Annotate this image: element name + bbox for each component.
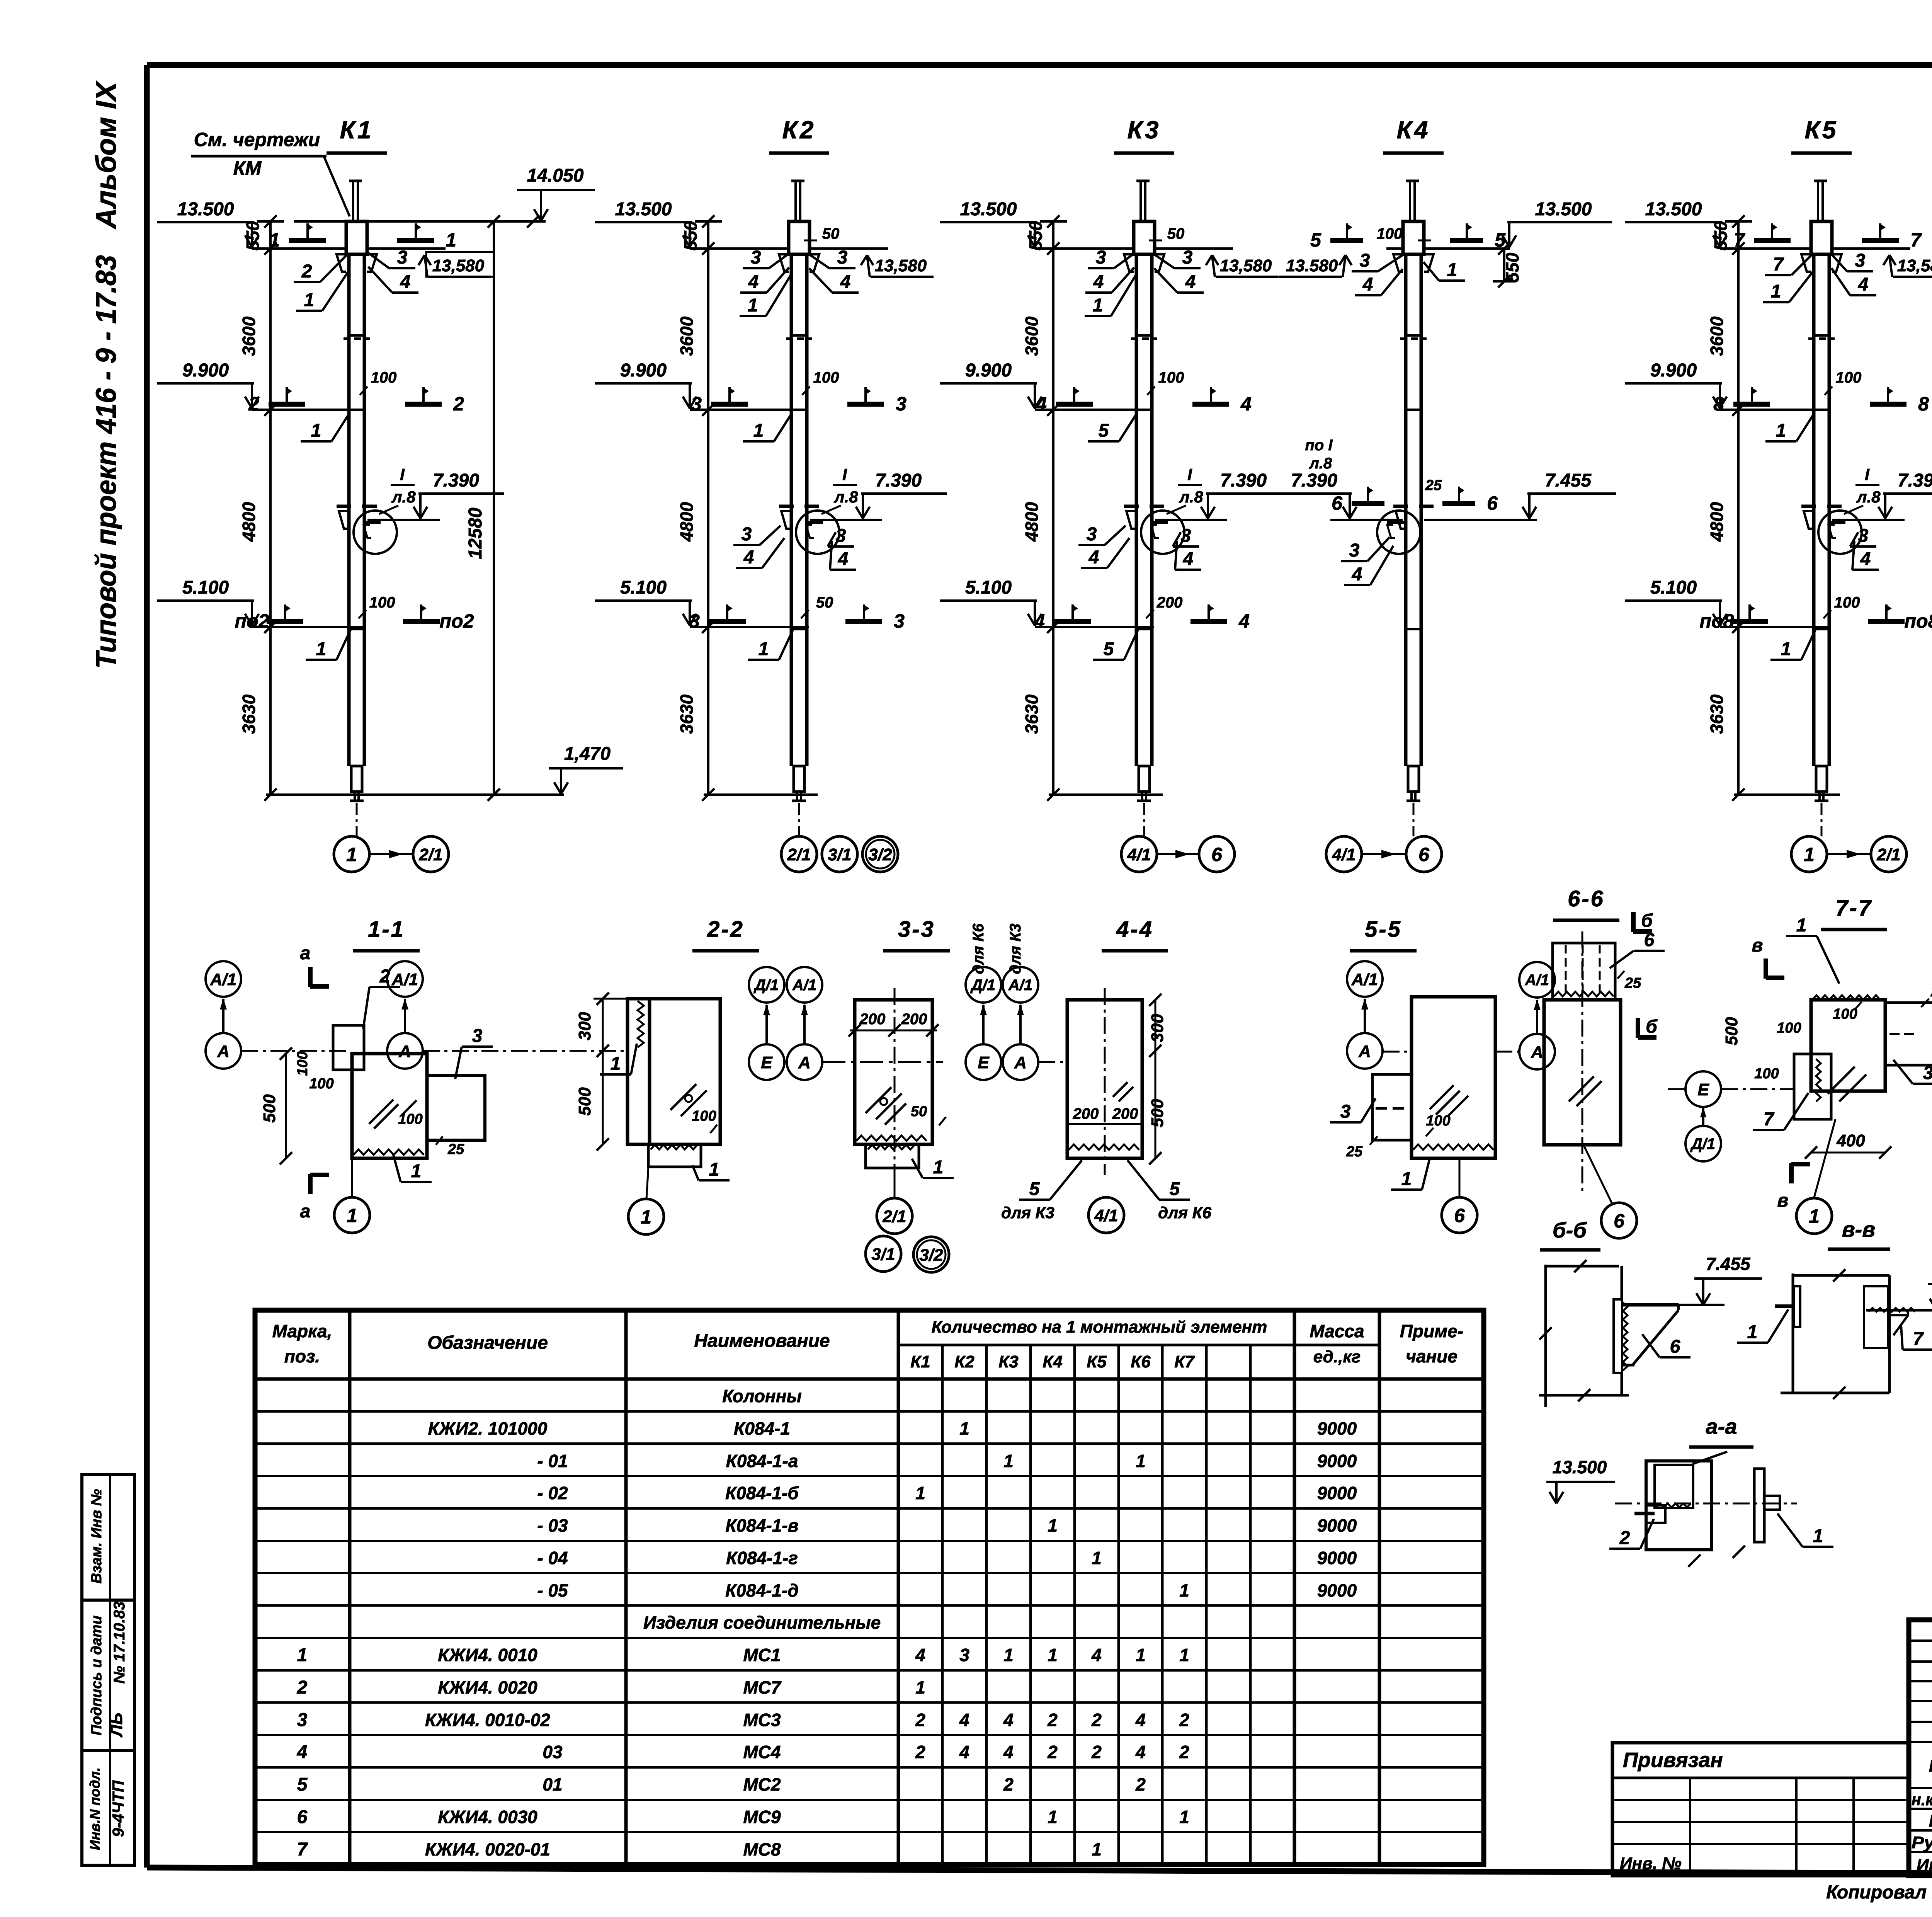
svg-text:К1: К1 xyxy=(910,1352,930,1371)
svg-text:7: 7 xyxy=(1913,1329,1924,1349)
svg-text:- 05: - 05 xyxy=(537,1580,568,1600)
svg-text:б-б: б-б xyxy=(1553,1218,1587,1242)
svg-text:К084-1: К084-1 xyxy=(734,1418,790,1439)
svg-text:2: 2 xyxy=(248,393,259,415)
svg-text:7.390: 7.390 xyxy=(1898,470,1932,491)
svg-text:3: 3 xyxy=(837,247,848,268)
left stamp box Vzam Inv xyxy=(82,1474,134,1600)
svg-text:Количество на 1 монтажный эл: Количество на 1 монтажный элемент xyxy=(932,1318,1267,1336)
svg-text:3/1: 3/1 xyxy=(828,845,851,864)
svg-text:6: 6 xyxy=(1454,1205,1465,1226)
svg-text:1: 1 xyxy=(1813,1526,1823,1546)
svg-text:I: I xyxy=(842,465,847,484)
column К1 7.390/7.455 flag xyxy=(367,519,440,521)
svg-text:300: 300 xyxy=(575,1012,594,1040)
svg-text:3: 3 xyxy=(1349,540,1360,561)
svg-text:а: а xyxy=(300,943,311,964)
svg-text:1: 1 xyxy=(1747,1322,1758,1342)
svg-text:МС1: МС1 xyxy=(743,1645,781,1665)
svg-text:13,580: 13,580 xyxy=(875,256,927,275)
svg-text:1: 1 xyxy=(297,1645,308,1665)
svg-text:1: 1 xyxy=(1136,1451,1146,1471)
svg-text:4: 4 xyxy=(400,272,411,292)
svg-text:500: 500 xyxy=(260,1094,279,1123)
svg-text:1: 1 xyxy=(316,639,327,659)
svg-text:500: 500 xyxy=(1722,1017,1741,1045)
axis circles right of 5-5 xyxy=(1519,962,1555,998)
svg-text:1: 1 xyxy=(1093,295,1103,316)
svg-text:5.100: 5.100 xyxy=(620,577,667,598)
svg-text:а: а xyxy=(300,1201,311,1222)
svg-text:А: А xyxy=(217,1042,230,1061)
svg-text:100: 100 xyxy=(1377,225,1403,242)
svg-text:1: 1 xyxy=(1048,1645,1058,1665)
svg-text:13,580: 13,580 xyxy=(1220,256,1272,275)
svg-text:1: 1 xyxy=(709,1159,719,1180)
svg-text:по2: по2 xyxy=(235,610,269,632)
svg-text:К5: К5 xyxy=(1805,116,1838,144)
column К1 low weld marks 5.100 xyxy=(267,619,303,624)
column К5 detail circle xyxy=(1818,511,1862,554)
svg-text:2: 2 xyxy=(1179,1742,1189,1762)
svg-text:4/1: 4/1 xyxy=(1332,845,1355,864)
svg-text:7: 7 xyxy=(1764,1109,1775,1130)
svg-text:2: 2 xyxy=(1091,1742,1102,1762)
svg-text:4/1: 4/1 xyxy=(1094,1206,1118,1225)
svg-text:03: 03 xyxy=(543,1742,563,1762)
svg-text:100: 100 xyxy=(1833,1006,1857,1022)
svg-text:1: 1 xyxy=(1179,1645,1189,1665)
svg-text:100: 100 xyxy=(692,1108,716,1124)
svg-text:3600: 3600 xyxy=(239,316,259,356)
svg-text:л.8: л.8 xyxy=(391,488,416,506)
svg-text:1: 1 xyxy=(346,844,357,865)
svg-text:1: 1 xyxy=(1401,1169,1412,1189)
svg-text:100: 100 xyxy=(1754,1066,1779,1082)
svg-text:3600: 3600 xyxy=(677,316,697,356)
svg-text:в: в xyxy=(1752,935,1763,956)
svg-text:4800: 4800 xyxy=(1707,502,1727,542)
svg-text:4: 4 xyxy=(1003,1710,1014,1730)
svg-text:13.500: 13.500 xyxy=(1645,199,1702,220)
svg-text:1: 1 xyxy=(915,1483,925,1503)
svg-text:5.100: 5.100 xyxy=(1650,577,1697,598)
svg-text:л.8: л.8 xyxy=(1856,488,1881,506)
svg-text:50: 50 xyxy=(816,594,833,611)
svg-text:для К3: для К3 xyxy=(1001,1204,1054,1222)
svg-text:1: 1 xyxy=(1776,421,1786,441)
svg-text:25: 25 xyxy=(1930,984,1932,1000)
svg-text:1: 1 xyxy=(269,229,280,251)
svg-text:3/1: 3/1 xyxy=(871,1245,895,1264)
svg-text:л.8: л.8 xyxy=(833,488,858,506)
svg-text:550: 550 xyxy=(1502,252,1522,282)
svg-text:Д/1: Д/1 xyxy=(753,977,779,994)
svg-text:КЖИ4. 0030: КЖИ4. 0030 xyxy=(438,1807,537,1827)
column К1 detail circle xyxy=(354,511,397,554)
svg-text:100: 100 xyxy=(1158,369,1184,386)
svg-text:1: 1 xyxy=(1447,260,1458,280)
svg-text:Рук. гр.: Рук. гр. xyxy=(1912,1833,1932,1852)
svg-text:6: 6 xyxy=(1332,492,1343,514)
svg-text:1: 1 xyxy=(304,290,315,310)
svg-text:КМ: КМ xyxy=(233,157,262,179)
svg-text:А/1: А/1 xyxy=(792,977,816,994)
column К5 levels and dimension chain xyxy=(1737,221,1740,795)
svg-text:1: 1 xyxy=(1179,1580,1189,1600)
svg-text:А: А xyxy=(1014,1053,1027,1072)
svg-text:12580: 12580 xyxy=(465,507,486,559)
svg-text:4: 4 xyxy=(748,272,759,292)
svg-text:б: б xyxy=(1641,911,1653,931)
svg-text:9.900: 9.900 xyxy=(1650,360,1697,381)
svg-text:500: 500 xyxy=(1148,1099,1167,1127)
svg-text:13.580: 13.580 xyxy=(1286,256,1338,275)
svg-text:Копировал Качалина: Копировал Качалина xyxy=(1826,1882,1932,1903)
svg-text:8: 8 xyxy=(1918,393,1929,415)
svg-text:А: А xyxy=(1358,1042,1371,1061)
svg-text:9.900: 9.900 xyxy=(620,360,667,381)
svg-text:2: 2 xyxy=(1619,1528,1630,1548)
svg-text:1: 1 xyxy=(611,1054,621,1074)
svg-text:по8: по8 xyxy=(1700,610,1734,632)
column К3 axis circles xyxy=(1121,836,1157,872)
svg-text:А/1: А/1 xyxy=(1351,970,1378,989)
svg-text:1: 1 xyxy=(641,1206,651,1228)
svg-text:100: 100 xyxy=(1777,1020,1801,1036)
svg-text:К5: К5 xyxy=(1087,1352,1107,1371)
svg-text:Масса: Масса xyxy=(1310,1321,1364,1341)
svg-text:50: 50 xyxy=(911,1103,927,1120)
svg-text:9000: 9000 xyxy=(1317,1515,1357,1536)
svg-text:6-6: 6-6 xyxy=(1568,886,1605,911)
svg-text:л.8: л.8 xyxy=(1179,488,1203,506)
svg-text:3630: 3630 xyxy=(677,694,697,734)
svg-text:- 04: - 04 xyxy=(537,1548,568,1568)
svg-text:13.500: 13.500 xyxy=(960,199,1017,220)
svg-text:3: 3 xyxy=(1181,526,1191,546)
column К3 levels and dimension chain xyxy=(1052,221,1054,795)
svg-text:8: 8 xyxy=(1713,393,1724,415)
svg-text:по2: по2 xyxy=(440,610,474,632)
svg-text:Колонны: Колонны xyxy=(722,1386,802,1406)
svg-text:6: 6 xyxy=(1614,1210,1625,1232)
svg-text:4: 4 xyxy=(743,547,754,568)
svg-text:9000: 9000 xyxy=(1317,1580,1357,1600)
svg-text:1: 1 xyxy=(1781,639,1791,659)
svg-text:5: 5 xyxy=(1170,1179,1180,1199)
svg-text:3: 3 xyxy=(959,1645,969,1665)
column К4 shaft xyxy=(1409,181,1411,221)
svg-text:А: А xyxy=(398,1042,411,1061)
title block signature rows xyxy=(1909,1787,1932,1789)
svg-text:А/1: А/1 xyxy=(391,970,418,989)
svg-text:13.500: 13.500 xyxy=(1553,1457,1607,1477)
svg-text:13.500: 13.500 xyxy=(1535,199,1592,220)
svg-text:- 02: - 02 xyxy=(537,1483,568,1503)
svg-text:4: 4 xyxy=(1240,393,1252,415)
svg-text:К6: К6 xyxy=(1131,1352,1151,1371)
svg-text:ГИП: ГИП xyxy=(1929,1757,1932,1776)
svg-text:в: в xyxy=(1777,1190,1789,1211)
column К5 axis circles xyxy=(1791,836,1827,872)
svg-text:400: 400 xyxy=(1836,1131,1865,1150)
svg-text:9.900: 9.900 xyxy=(965,360,1012,381)
svg-text:4: 4 xyxy=(1362,274,1373,295)
column К2 detail circle xyxy=(796,511,839,554)
column К2 axis circles xyxy=(781,836,817,872)
svg-text:Д/1: Д/1 xyxy=(1690,1136,1715,1153)
svg-text:К084-1-а: К084-1-а xyxy=(726,1451,798,1471)
svg-text:5: 5 xyxy=(1099,421,1109,441)
svg-text:7.390: 7.390 xyxy=(1220,470,1267,491)
svg-text:7: 7 xyxy=(297,1839,308,1860)
svg-text:5: 5 xyxy=(297,1774,308,1795)
svg-text:3/2: 3/2 xyxy=(868,845,892,864)
svg-text:100: 100 xyxy=(398,1111,422,1127)
svg-text:01: 01 xyxy=(543,1774,562,1794)
svg-text:3: 3 xyxy=(297,1710,308,1730)
svg-text:4: 4 xyxy=(1135,1742,1146,1762)
svg-text:25: 25 xyxy=(1624,975,1641,991)
svg-text:Альбом IX: Альбом IX xyxy=(90,80,122,230)
svg-text:5: 5 xyxy=(1104,639,1114,659)
svg-text:4/1: 4/1 xyxy=(1127,845,1151,864)
svg-text:Привязан: Привязан xyxy=(1623,1748,1723,1772)
svg-text:25: 25 xyxy=(1425,477,1442,494)
svg-text:13,580: 13,580 xyxy=(1897,256,1932,275)
svg-text:4: 4 xyxy=(1093,272,1104,292)
svg-text:К7: К7 xyxy=(1174,1352,1195,1371)
svg-text:Приме-: Приме- xyxy=(1400,1321,1463,1341)
column К5 low weld marks 5.100 xyxy=(1731,619,1768,624)
svg-text:3: 3 xyxy=(1087,524,1097,545)
svg-text:- 01: - 01 xyxy=(537,1451,568,1471)
svg-text:1: 1 xyxy=(347,1205,357,1226)
svg-text:МС2: МС2 xyxy=(743,1774,781,1794)
svg-text:3630: 3630 xyxy=(1707,694,1727,734)
svg-text:для К6: для К6 xyxy=(1158,1204,1211,1222)
svg-text:Е: Е xyxy=(1697,1080,1709,1099)
column К4 7.390/7.455 flag xyxy=(1424,519,1537,521)
svg-text:4800: 4800 xyxy=(1022,502,1042,542)
svg-text:4: 4 xyxy=(1036,393,1047,415)
svg-text:3: 3 xyxy=(1360,250,1370,271)
svg-text:7: 7 xyxy=(1734,229,1745,251)
svg-text:н.контр.: н.контр. xyxy=(1912,1790,1932,1809)
svg-text:л.8: л.8 xyxy=(1309,455,1332,472)
svg-text:7.455: 7.455 xyxy=(1545,470,1592,491)
column К2 low weld marks 5.100 xyxy=(709,619,746,624)
svg-text:100: 100 xyxy=(813,369,839,386)
svg-text:100: 100 xyxy=(309,1076,333,1092)
svg-text:6: 6 xyxy=(297,1807,308,1827)
svg-text:1: 1 xyxy=(748,295,758,316)
svg-text:К3: К3 xyxy=(1128,116,1161,144)
svg-text:3: 3 xyxy=(689,610,700,632)
svg-text:3630: 3630 xyxy=(239,694,259,734)
svg-text:А: А xyxy=(1531,1043,1543,1062)
svg-text:14.050: 14.050 xyxy=(527,165,584,186)
svg-text:4: 4 xyxy=(1034,610,1045,632)
svg-text:Взам. Инв №: Взам. Инв № xyxy=(88,1489,105,1584)
svg-text:2/1: 2/1 xyxy=(787,845,811,864)
svg-text:Подпись и дати: Подпись и дати xyxy=(88,1616,105,1735)
svg-text:3: 3 xyxy=(742,524,752,545)
svg-text:3: 3 xyxy=(1858,526,1869,546)
svg-text:2/1: 2/1 xyxy=(882,1207,906,1226)
specification table xyxy=(255,1310,1484,1864)
svg-text:Инв.N подл.: Инв.N подл. xyxy=(87,1767,103,1850)
column К1 top weld marks xyxy=(289,238,326,243)
svg-text:2: 2 xyxy=(1179,1710,1189,1730)
svg-text:МС9: МС9 xyxy=(743,1807,781,1827)
svg-text:9000: 9000 xyxy=(1317,1483,1357,1503)
svg-text:200: 200 xyxy=(859,1011,886,1028)
svg-text:1: 1 xyxy=(1804,844,1815,865)
svg-text:1: 1 xyxy=(1048,1515,1058,1536)
svg-text:3: 3 xyxy=(691,393,702,415)
left stamp box Podpis i data xyxy=(82,1600,134,1750)
svg-text:ГИП: ГИП xyxy=(1929,1811,1932,1830)
column К3 detail circle xyxy=(1141,511,1184,554)
svg-text:ЛЬ: ЛЬ xyxy=(107,1713,126,1737)
svg-text:25: 25 xyxy=(447,1141,464,1158)
svg-text:К4: К4 xyxy=(1397,116,1430,144)
svg-text:I: I xyxy=(1865,465,1870,484)
column К5 7.390/7.455 flag xyxy=(1832,519,1905,521)
svg-text:- 03: - 03 xyxy=(537,1515,568,1536)
svg-text:4: 4 xyxy=(1352,564,1362,585)
svg-text:50: 50 xyxy=(1167,225,1185,242)
svg-text:К084-1-б: К084-1-б xyxy=(725,1483,799,1503)
column К5 top weld marks xyxy=(1754,238,1791,243)
column К5 shaft xyxy=(1817,181,1819,221)
column К3 mid weld marks 9.900 xyxy=(1056,402,1093,407)
svg-text:9.900: 9.900 xyxy=(182,360,229,381)
overall dimension 12580 xyxy=(493,221,495,795)
svg-text:1: 1 xyxy=(915,1677,925,1697)
svg-text:6: 6 xyxy=(1487,492,1498,514)
svg-text:К3: К3 xyxy=(998,1352,1019,1371)
svg-text:К084-1-в: К084-1-в xyxy=(725,1515,798,1536)
svg-text:13.500: 13.500 xyxy=(177,199,234,220)
svg-text:4: 4 xyxy=(1135,1710,1146,1730)
svg-text:КЖИ4. 0020: КЖИ4. 0020 xyxy=(438,1677,537,1697)
svg-text:КЖИ4. 0010-02: КЖИ4. 0010-02 xyxy=(425,1710,550,1730)
svg-text:1: 1 xyxy=(1092,1839,1102,1859)
svg-text:100: 100 xyxy=(369,594,395,611)
svg-text:2-2: 2-2 xyxy=(707,917,744,942)
svg-text:Инжен.: Инжен. xyxy=(1917,1856,1932,1874)
privyazan block xyxy=(1612,1743,1909,1876)
svg-text:2: 2 xyxy=(1003,1774,1014,1794)
svg-text:4800: 4800 xyxy=(239,502,259,542)
svg-text:2: 2 xyxy=(1091,1710,1102,1730)
svg-text:МС7: МС7 xyxy=(743,1677,782,1697)
svg-text:4: 4 xyxy=(1858,274,1869,295)
svg-text:Инв. №: Инв. № xyxy=(1620,1854,1682,1873)
svg-text:А/1: А/1 xyxy=(1008,977,1032,994)
svg-text:1: 1 xyxy=(1771,281,1781,302)
svg-text:7: 7 xyxy=(1773,254,1784,275)
svg-text:Е: Е xyxy=(978,1053,990,1072)
svg-text:6: 6 xyxy=(1644,930,1655,950)
svg-text:4: 4 xyxy=(959,1710,969,1730)
svg-text:200: 200 xyxy=(901,1011,927,1028)
svg-text:5.100: 5.100 xyxy=(182,577,229,598)
column К4 detail circle xyxy=(1377,511,1420,554)
svg-text:Марка,: Марка, xyxy=(272,1321,332,1341)
svg-text:5.100: 5.100 xyxy=(965,577,1012,598)
svg-text:25: 25 xyxy=(1346,1144,1363,1160)
svg-text:2: 2 xyxy=(453,393,464,415)
drawing frame xyxy=(147,62,1932,68)
svg-text:1-1: 1-1 xyxy=(368,917,405,942)
column К5 mid weld marks 9.900 xyxy=(1733,402,1770,407)
svg-text:100: 100 xyxy=(1426,1113,1450,1129)
svg-text:К2: К2 xyxy=(954,1352,975,1371)
svg-text:9-4ЧТП: 9-4ЧТП xyxy=(109,1780,127,1837)
column К1 axis circles xyxy=(334,836,369,872)
svg-text:2/1: 2/1 xyxy=(418,845,442,864)
svg-text:МС8: МС8 xyxy=(743,1839,781,1859)
svg-text:1: 1 xyxy=(753,421,764,441)
svg-text:1: 1 xyxy=(1136,1645,1146,1665)
column К2 mid weld marks 9.900 xyxy=(711,402,748,407)
svg-text:К1: К1 xyxy=(340,116,374,144)
svg-text:500: 500 xyxy=(575,1087,594,1116)
svg-text:7-7: 7-7 xyxy=(1835,896,1872,921)
svg-text:Наименование: Наименование xyxy=(694,1331,830,1351)
svg-text:4: 4 xyxy=(297,1742,308,1762)
column К1 mid weld marks 9.900 xyxy=(269,402,305,407)
svg-text:4: 4 xyxy=(959,1742,969,1762)
svg-text:Типовой проект 416 - 9 - 17.83: Типовой проект 416 - 9 - 17.83 xyxy=(90,255,122,669)
svg-text:А: А xyxy=(798,1053,811,1072)
svg-text:2: 2 xyxy=(1047,1710,1058,1730)
svg-text:К084-1-д: К084-1-д xyxy=(725,1580,799,1600)
svg-text:1: 1 xyxy=(1048,1807,1058,1827)
svg-text:I: I xyxy=(1187,465,1192,484)
svg-text:1: 1 xyxy=(759,639,769,659)
column К1 levels and dimension chain xyxy=(269,221,272,795)
svg-text:5: 5 xyxy=(1495,229,1506,251)
svg-text:1: 1 xyxy=(446,229,456,251)
svg-text:а-а: а-а xyxy=(1706,1414,1737,1439)
svg-text:по8: по8 xyxy=(1905,610,1932,632)
svg-text:ед.,кг: ед.,кг xyxy=(1313,1347,1361,1366)
svg-text:3/2: 3/2 xyxy=(919,1246,943,1265)
svg-text:200: 200 xyxy=(1156,594,1183,611)
svg-text:3600: 3600 xyxy=(1022,316,1042,356)
svg-text:4: 4 xyxy=(838,549,849,569)
svg-text:7.455: 7.455 xyxy=(1706,1254,1751,1274)
title block xyxy=(1909,1620,1932,1876)
svg-text:3: 3 xyxy=(472,1026,483,1046)
svg-text:13.500: 13.500 xyxy=(615,199,672,220)
svg-text:200: 200 xyxy=(1073,1105,1099,1122)
svg-text:5-5: 5-5 xyxy=(1365,917,1402,942)
svg-text:1,470: 1,470 xyxy=(564,744,611,764)
svg-text:чание: чание xyxy=(1406,1346,1458,1366)
column К2 7.390/7.455 flag xyxy=(810,519,882,521)
svg-text:1: 1 xyxy=(1003,1645,1014,1665)
svg-text:9000: 9000 xyxy=(1317,1418,1357,1439)
svg-text:Д/1: Д/1 xyxy=(970,977,995,994)
svg-text:1: 1 xyxy=(1092,1548,1102,1568)
svg-text:2: 2 xyxy=(301,261,312,282)
